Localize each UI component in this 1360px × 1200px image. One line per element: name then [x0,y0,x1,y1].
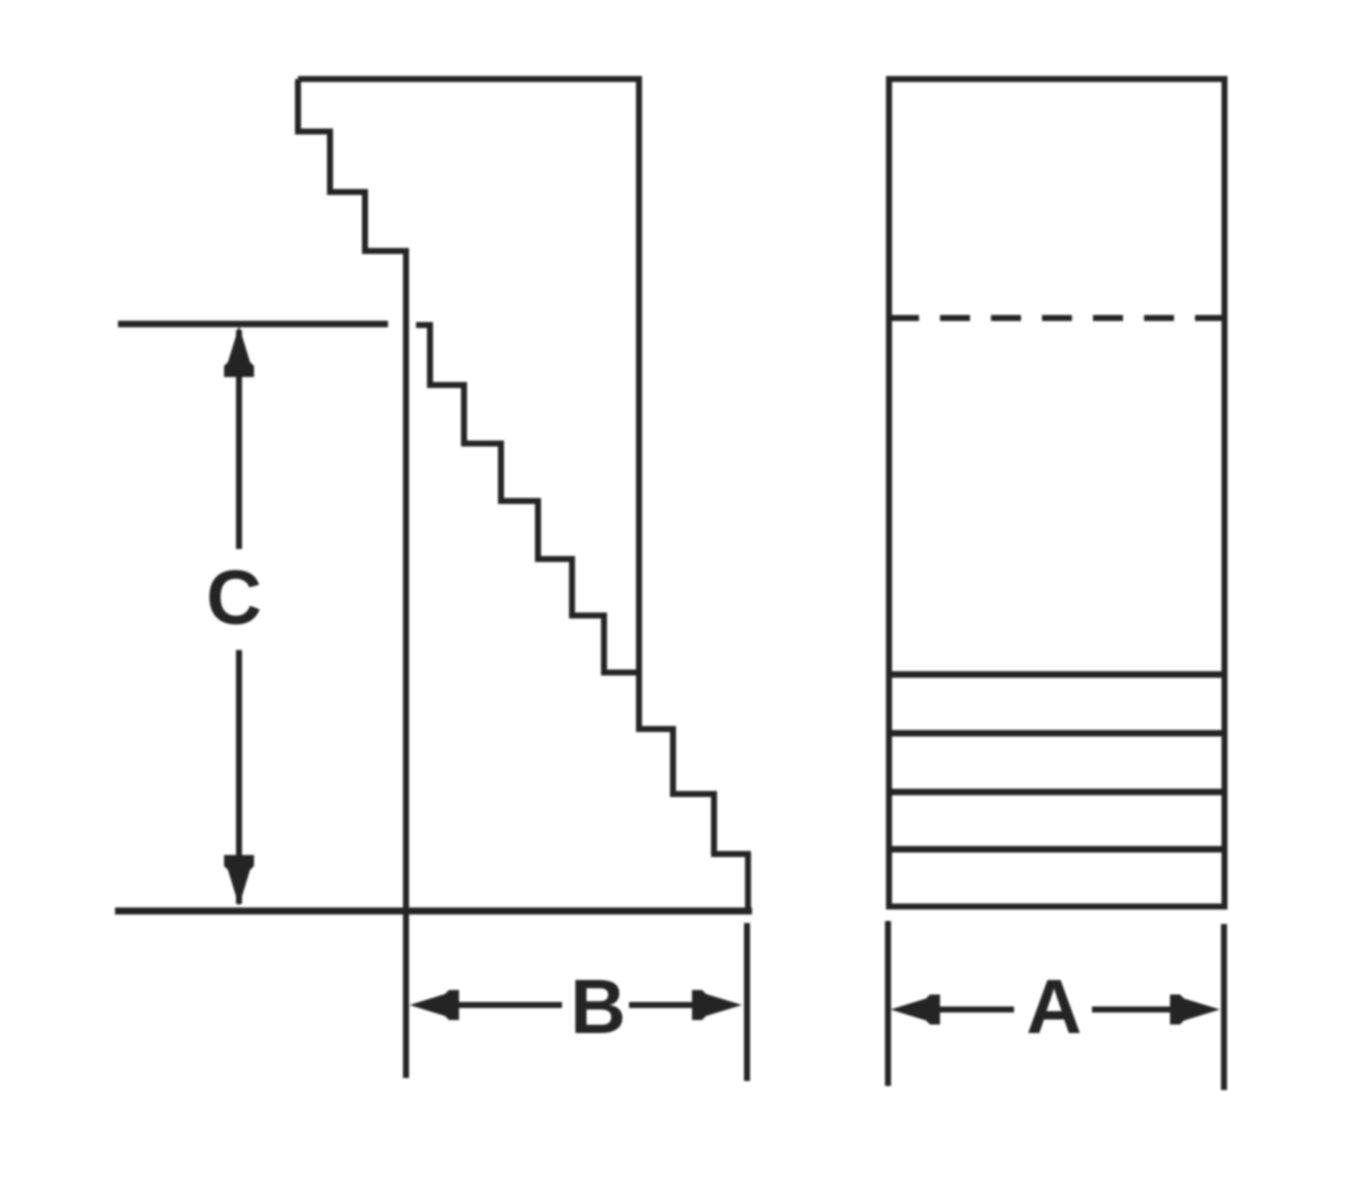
svg-text:A: A [1026,964,1082,1050]
svg-text:B: B [570,964,626,1050]
svg-text:C: C [206,555,262,641]
